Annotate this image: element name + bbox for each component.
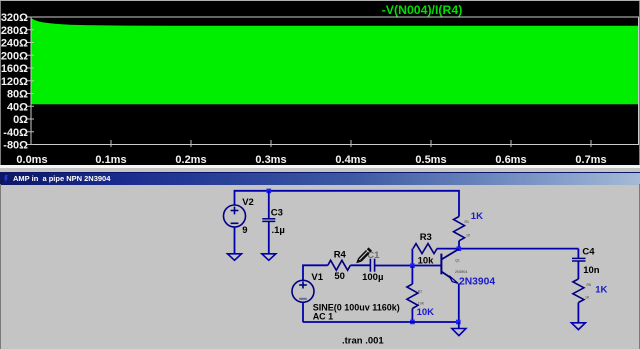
- wire R5 to ground: [577, 303, 579, 323]
- separator below waveform: [0, 165, 640, 168]
- svg-text:R5: R5: [587, 283, 592, 287]
- wire R3 left lead down: [411, 249, 413, 266]
- resistor R3 10k feedback: [413, 244, 437, 254]
- svg-text:0.4ms: 0.4ms: [335, 154, 366, 165]
- svg-text:100µ: 100µ: [362, 272, 383, 283]
- y axis labels: [1, 12, 28, 152]
- wire base node horizontal: [375, 265, 441, 267]
- svg-text:9: 9: [242, 225, 247, 236]
- resistor R5 1K load: [573, 279, 584, 303]
- svg-text:80Ω: 80Ω: [7, 89, 28, 101]
- capacitor C4: [572, 258, 586, 261]
- x axis labels: [16, 154, 606, 166]
- title bar icon: [0, 172, 14, 185]
- schematic title bar: [0, 172, 640, 185]
- ground under R5: [571, 323, 585, 330]
- svg-text:V2: V2: [242, 197, 254, 208]
- svg-text:240Ω: 240Ω: [1, 38, 28, 50]
- wire C3 to ground: [268, 222, 270, 254]
- transistor Q1 2N3904: [441, 249, 458, 283]
- svg-text:10n: 10n: [583, 265, 600, 276]
- wire V1 top: [303, 265, 328, 280]
- svg-text:280Ω: 280Ω: [1, 25, 28, 37]
- node junction base: [410, 263, 415, 268]
- node junction collector: [457, 246, 462, 251]
- svg-text:R3: R3: [420, 232, 432, 243]
- svg-text:0Ω: 0Ω: [13, 114, 28, 126]
- svg-text:50: 50: [334, 271, 345, 282]
- svg-text:0.2ms: 0.2ms: [175, 154, 206, 165]
- svg-text:40Ω: 40Ω: [7, 101, 28, 113]
- svg-text:1K: 1K: [595, 284, 607, 295]
- svg-text:R1: R1: [465, 220, 470, 224]
- svg-text:0.6ms: 0.6ms: [495, 154, 526, 165]
- wire C4 to R5: [577, 261, 579, 279]
- svg-text:Q1: Q1: [455, 258, 460, 262]
- node junction at C3 top: [267, 189, 272, 194]
- svg-text:R4: R4: [334, 250, 347, 261]
- voltage source V2: [224, 205, 246, 227]
- wire emitter ground stub: [458, 322, 460, 329]
- wire base node to R2: [411, 266, 413, 284]
- svg-text:0.0ms: 0.0ms: [16, 154, 47, 165]
- svg-text:C1: C1: [367, 250, 380, 261]
- wire top supply bus: [235, 191, 460, 217]
- pencil cursor: [356, 247, 372, 263]
- svg-text:200Ω: 200Ω: [1, 50, 28, 62]
- node junction bottom rail emitter: [456, 320, 461, 325]
- resistor R1 1K top right: [454, 217, 465, 241]
- plot frame: [31, 17, 639, 145]
- wire bottom rail: [303, 321, 459, 323]
- svg-text:1K: 1K: [585, 296, 590, 300]
- node junction bottom rail R2: [410, 320, 415, 325]
- ground under C3: [262, 254, 276, 260]
- svg-text:.tran .001: .tran .001: [342, 336, 384, 347]
- svg-text:-40Ω: -40Ω: [3, 127, 28, 139]
- resistor R2 10K: [407, 284, 418, 309]
- svg-text:0.5ms: 0.5ms: [415, 154, 446, 165]
- svg-text:-80Ω: -80Ω: [3, 140, 28, 152]
- svg-text:C4: C4: [582, 247, 595, 258]
- svg-text:.1µ: .1µ: [272, 225, 285, 236]
- svg-text:C3: C3: [271, 207, 283, 218]
- svg-text:2N3904: 2N3904: [459, 276, 495, 287]
- svg-text:10K: 10K: [417, 307, 435, 318]
- wire collector node horizontal: [437, 248, 579, 250]
- wire R4 to C1: [350, 264, 370, 266]
- svg-text:1K: 1K: [466, 234, 471, 238]
- wire V1 bottom: [302, 302, 304, 322]
- capacitor C1: [370, 259, 374, 272]
- title bar text: [13, 175, 110, 183]
- green trace fill: [32, 18, 639, 104]
- svg-text:V1: V1: [311, 272, 323, 283]
- waveform pane: [0, 0, 640, 165]
- svg-text:-V(N004)/I(R4): -V(N004)/I(R4): [382, 3, 463, 17]
- svg-text:1K: 1K: [471, 211, 483, 222]
- window border top: [0, 0, 640, 1]
- x ticks: [111, 140, 591, 147]
- svg-text:160Ω: 160Ω: [1, 63, 28, 75]
- schematic pane: [0, 184, 640, 349]
- svg-text:120Ω: 120Ω: [1, 76, 28, 88]
- ground under emitter: [452, 329, 466, 336]
- ground under V2: [228, 254, 242, 260]
- wire V2 to ground: [234, 227, 236, 254]
- wire C4 top lead: [577, 249, 579, 258]
- y ticks: [27, 17, 35, 145]
- wire R1 to collector node: [458, 241, 460, 249]
- svg-text:320Ω: 320Ω: [1, 12, 28, 24]
- capacitor C3: [262, 219, 275, 222]
- wire R2 to bottom rail: [411, 309, 413, 323]
- svg-text:2N3904: 2N3904: [455, 270, 467, 274]
- svg-text:0.1ms: 0.1ms: [95, 154, 126, 165]
- svg-text:0.3ms: 0.3ms: [255, 154, 286, 165]
- wire C3 top lead: [268, 191, 270, 219]
- svg-text:R2: R2: [418, 290, 423, 294]
- svg-text:0.7ms: 0.7ms: [575, 154, 606, 165]
- svg-text:AC 1: AC 1: [313, 312, 334, 322]
- wire emitter down: [458, 284, 460, 323]
- svg-text:10K: 10K: [418, 302, 425, 306]
- voltage source V1: [292, 280, 314, 302]
- resistor R4 50: [328, 260, 351, 270]
